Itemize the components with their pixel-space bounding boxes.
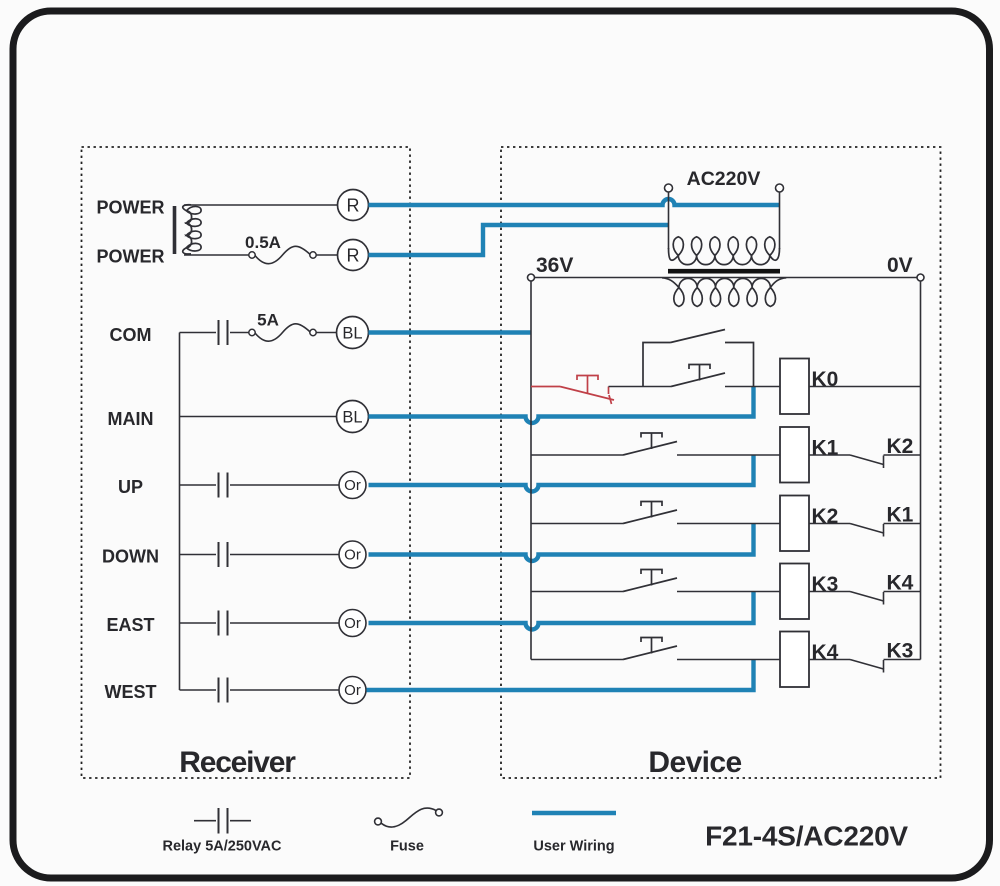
0V rail [920, 281, 922, 660]
relay coil K0 [780, 359, 809, 415]
svg-text:BL: BL [342, 409, 362, 427]
user wiring POWER1 to AC220V right terminal (blue) [369, 199, 780, 205]
user wiring COM to 36V rail (blue) [369, 330, 532, 334]
terminal Or DOWN [339, 541, 366, 568]
wire EAST row [180, 622, 217, 624]
wire UP row [180, 484, 217, 486]
start button K1 [623, 442, 677, 456]
wire interlock to 0V rail [884, 591, 921, 593]
svg-text:AC220V: AC220V [687, 168, 761, 190]
wire interlock to 0V rail [884, 523, 921, 525]
interlock contact K4 [850, 592, 884, 602]
terminal Or WEST [339, 677, 366, 704]
start button K4 [623, 646, 677, 660]
svg-text:POWER: POWER [96, 198, 164, 218]
wire K0 bottom branch [643, 386, 671, 388]
36V rail [530, 281, 532, 660]
terminal 36V [528, 274, 535, 281]
terminal Or UP [339, 472, 366, 499]
wire button to K3 coil [677, 591, 780, 593]
relay contact EAST [218, 611, 220, 636]
start button K2 [623, 510, 677, 524]
receiver common vertical wire [179, 333, 181, 691]
svg-text:Or: Or [344, 547, 361, 564]
relay contact WEST [218, 678, 220, 703]
terminal 0V [917, 274, 924, 281]
terminal BL2 [337, 401, 369, 433]
wire button to K0 coil [725, 386, 780, 388]
wire AC N lead [779, 192, 781, 249]
wire interlock to 0V rail [884, 659, 921, 661]
wire K4 coil to interlock [809, 659, 850, 661]
wire stop switch to K0 branch [609, 386, 644, 388]
interlock contact K1 [850, 524, 884, 534]
svg-text:R: R [347, 196, 360, 216]
interlock contact K3 [850, 660, 884, 670]
relay contact COM [218, 320, 220, 345]
svg-text:Or: Or [344, 615, 361, 632]
wire WEST row [180, 689, 217, 691]
wire 36V rail to K4 button [531, 659, 623, 661]
svg-text:K2: K2 [812, 505, 839, 528]
Device dashed box [501, 147, 941, 778]
svg-text:Receiver: Receiver [179, 746, 296, 779]
wire COM row [180, 332, 217, 334]
relay contact DOWN [218, 542, 220, 567]
user wiring MAIN to device row (blue) [369, 387, 754, 424]
svg-text:Or: Or [344, 682, 361, 699]
transformer T1 primary coil [669, 237, 780, 265]
wire K3 coil to interlock [809, 591, 850, 593]
svg-text:K1: K1 [812, 437, 839, 460]
svg-text:K3: K3 [812, 573, 839, 596]
wire POWER1 to R1 [184, 204, 338, 206]
wire interlock to 0V rail [884, 454, 921, 456]
terminal AC L [665, 184, 673, 192]
terminal AC N [776, 184, 784, 192]
K0 self-hold branch box [643, 343, 754, 387]
svg-text:36V: 36V [536, 254, 573, 277]
interlock contact K2 [850, 455, 884, 465]
svg-text:K0: K0 [812, 368, 839, 391]
receiver power coil bar [173, 206, 177, 254]
terminal Or EAST [339, 610, 366, 637]
terminal R2 [338, 240, 369, 271]
relay coil K4 [780, 632, 809, 688]
svg-text:UP: UP [118, 477, 143, 497]
start button K3 [623, 578, 677, 592]
wire 36V rail to K1 button [531, 454, 623, 456]
svg-text:BL: BL [342, 325, 362, 343]
svg-text:Relay 5A/250VAC: Relay 5A/250VAC [162, 839, 282, 855]
svg-text:0V: 0V [887, 254, 913, 277]
wire DOWN row [180, 554, 217, 556]
svg-text:EAST: EAST [106, 615, 154, 635]
svg-text:User Wiring: User Wiring [533, 839, 614, 855]
emergency stop switch (red) [531, 386, 560, 388]
svg-text:Or: Or [344, 477, 361, 494]
wire button to K4 coil [677, 659, 780, 661]
wire AC L lead [668, 192, 670, 249]
start button K0 [671, 373, 725, 387]
wire K0 coil to 0V rail [809, 386, 921, 388]
wire 36V to 0V bus [535, 277, 918, 279]
user wiring EAST to device row (blue) [369, 592, 754, 630]
legend relay symbol [194, 820, 216, 822]
relay coil K3 [780, 564, 809, 620]
transformer T1 core bar [668, 269, 780, 274]
svg-text:Fuse: Fuse [390, 839, 424, 855]
svg-text:MAIN: MAIN [108, 409, 154, 429]
wire POWER2 coil to fuse F1 [184, 254, 249, 256]
legend fuse symbol [375, 818, 382, 825]
wire fuse F1 to R2 [316, 254, 337, 256]
legend user wiring sample (blue) [532, 811, 616, 815]
user wiring POWER2 to AC220V left terminal (blue) [369, 225, 669, 255]
user wiring WEST to device row (blue) [367, 660, 754, 691]
wire button to K1 coil [677, 454, 780, 456]
relay coil K1 [780, 427, 809, 483]
Receiver dashed box [82, 147, 411, 778]
svg-text:WEST: WEST [105, 682, 157, 702]
wire 36V rail to K3 button [531, 591, 623, 593]
relay contact UP [218, 473, 220, 498]
wire button to K2 coil [677, 523, 780, 525]
wire 36V rail to K2 button [531, 523, 623, 525]
wire MAIN row [180, 416, 337, 418]
user wiring DOWN to device row (blue) [369, 524, 754, 562]
svg-text:K4: K4 [812, 641, 839, 664]
fuse F2 5A [249, 329, 255, 335]
svg-text:DOWN: DOWN [102, 547, 159, 567]
svg-text:Device: Device [648, 746, 741, 779]
svg-text:5A: 5A [257, 311, 279, 330]
wire K2 coil to interlock [809, 523, 850, 525]
svg-text:POWER: POWER [96, 247, 164, 267]
relay coil K2 [780, 496, 809, 552]
svg-text:F21-4S/AC220V: F21-4S/AC220V [705, 821, 908, 852]
terminal BL1 [337, 317, 369, 349]
user wiring UP to device row (blue) [369, 455, 754, 492]
terminal R1 [338, 190, 369, 221]
K0 auxiliary contact blade [671, 330, 726, 343]
transformer T1 secondary coil [662, 278, 786, 307]
svg-text:0.5A: 0.5A [245, 233, 281, 252]
svg-text:COM: COM [110, 325, 152, 345]
receiver power coil L1 [183, 205, 201, 254]
svg-text:R: R [347, 246, 360, 266]
fuse F1 0.5A [249, 252, 255, 258]
wire K1 coil to interlock [809, 454, 850, 456]
